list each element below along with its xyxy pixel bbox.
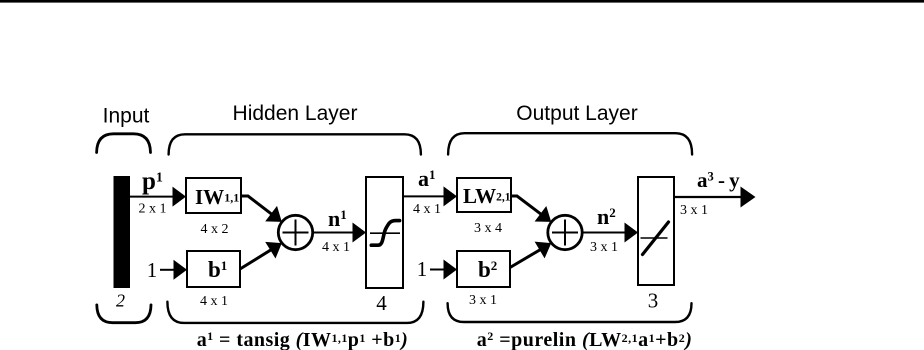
bracket hidden bottom: [167, 302, 423, 323]
bracket output bottom: [448, 303, 692, 322]
wire 1 to b1: [160, 269, 175, 271]
svg-text:4 x 1: 4 x 1: [200, 294, 228, 309]
svg-text:4 x 2: 4 x 2: [201, 222, 229, 237]
bracket input top: [97, 134, 151, 153]
wire LW2,1 to sum2: [511, 196, 542, 215]
transfer box purelin: [638, 177, 674, 285]
svg-text:2: 2: [116, 291, 125, 311]
svg-text:1: 1: [147, 258, 158, 282]
bias box b1: [187, 251, 240, 287]
bias box b2: [457, 251, 510, 287]
svg-text:4: 4: [376, 291, 387, 315]
svg-text:3 x 4: 3 x 4: [474, 221, 502, 236]
sum junction 2: [548, 215, 582, 249]
top rule: [0, 0, 924, 3]
sum junction 1: [278, 215, 312, 249]
wire IW1,1 to sum1: [241, 196, 273, 215]
svg-text:1: 1: [417, 257, 428, 281]
wire bar to IW1,1: [130, 196, 174, 198]
wire b1 to sum1: [240, 249, 272, 269]
bracket output top: [448, 133, 692, 154]
svg-text:Hidden Layer: Hidden Layer: [233, 102, 358, 125]
weight box LW2,1: [457, 178, 511, 212]
bracket hidden top: [169, 134, 421, 154]
svg-text:Input: Input: [103, 105, 150, 128]
weight box IW1,1: [186, 178, 241, 213]
wire b2 to sum2: [510, 249, 542, 268]
input vector bar: [114, 176, 131, 288]
svg-text:a1 = tansig (IW1,1p1 +b1): a1 = tansig (IW1,1p1 +b1): [197, 329, 409, 350]
svg-text:a3 - y: a3 - y: [697, 168, 740, 192]
wire tansig to LW2,1: [403, 195, 445, 197]
svg-text:3 x 1: 3 x 1: [680, 203, 708, 218]
wire 1 to b2: [430, 269, 445, 271]
svg-text:2 x 1: 2 x 1: [139, 202, 167, 217]
wire network output: [674, 196, 742, 198]
svg-text:Output Layer: Output Layer: [516, 102, 637, 125]
svg-text:3 x 1: 3 x 1: [590, 240, 618, 255]
svg-text:a2 =purelin (LW2,1a1+b2): a2 =purelin (LW2,1a1+b2): [477, 329, 693, 350]
svg-text:3 x 1: 3 x 1: [469, 293, 497, 308]
svg-text:4 x 1: 4 x 1: [322, 240, 350, 255]
svg-text:3: 3: [648, 289, 659, 313]
wire sum2 to purelin: [583, 232, 627, 234]
bracket input bottom: [97, 305, 151, 323]
transfer box tansig: [366, 177, 403, 288]
wire sum1 to tansig: [313, 232, 354, 234]
svg-text:4 x 1: 4 x 1: [413, 202, 441, 217]
